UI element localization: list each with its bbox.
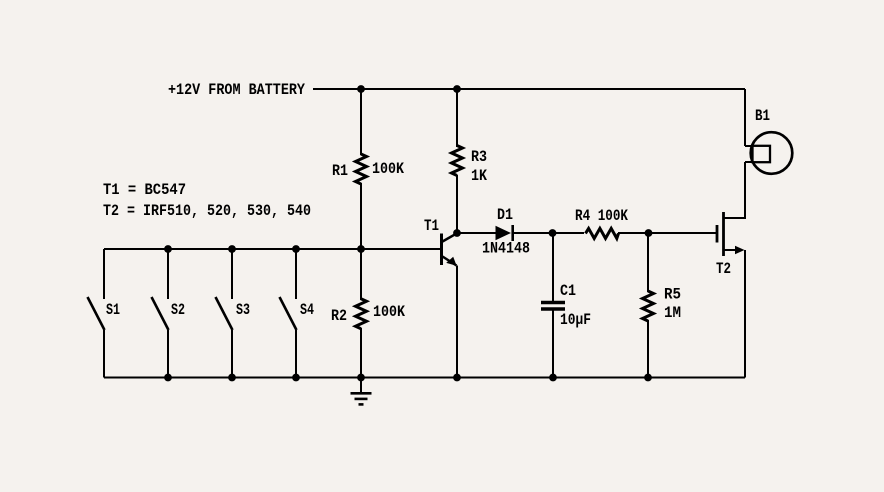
svg-text:S3: S3 — [236, 301, 250, 319]
resistor R2 — [356, 299, 367, 329]
svg-text:T2: T2 — [716, 260, 731, 278]
svg-text:T2 = IRF510, 520, 530, 540: T2 = IRF510, 520, 530, 540 — [103, 202, 311, 220]
node junction top rail R1 — [357, 85, 365, 93]
ground — [351, 378, 372, 405]
node bottom rail C1 — [549, 374, 557, 382]
svg-text:R2: R2 — [331, 307, 347, 325]
wire T1 collector node to D1 anode — [457, 232, 496, 234]
wire R1 lower lead — [360, 183, 362, 249]
node bottom rail S2 — [164, 374, 172, 382]
svg-text:+12V FROM BATTERY: +12V FROM BATTERY — [168, 81, 305, 99]
svg-text:R4 100K: R4 100K — [575, 207, 628, 225]
node base rail S3 — [228, 245, 236, 253]
wire top rail +12V — [313, 88, 745, 90]
wire R3 upper lead — [456, 89, 458, 147]
svg-text:10µF: 10µF — [560, 311, 591, 329]
diode D1 — [496, 225, 513, 241]
switch S2 — [152, 249, 169, 378]
svg-text:T1 = BC547: T1 = BC547 — [103, 181, 186, 199]
transistor T2 (MOSFET) — [717, 212, 745, 256]
wire R3 lower lead to collector node — [456, 175, 458, 233]
transistor T1 — [442, 234, 457, 266]
wire R5 upper lead — [647, 233, 649, 292]
svg-text:S4: S4 — [300, 301, 314, 319]
wire bottom rail — [104, 377, 745, 379]
wire base rail (switches to T1 base) — [104, 248, 440, 250]
svg-text:100K: 100K — [373, 303, 405, 321]
resistor R5 — [643, 291, 654, 321]
wire R4 to T2 gate — [618, 232, 716, 234]
wire T1 emitter to bottom rail — [456, 266, 458, 378]
switch S4 — [280, 249, 297, 378]
node junction top rail R3 — [453, 85, 461, 93]
svg-text:S1: S1 — [106, 301, 120, 319]
svg-text:R5: R5 — [664, 286, 681, 304]
svg-text:R3: R3 — [471, 148, 487, 166]
wire R5 lower lead — [647, 320, 649, 378]
svg-text:1K: 1K — [471, 167, 487, 185]
node bottom rail T1 emitter — [453, 374, 461, 382]
svg-text:1M: 1M — [664, 304, 681, 322]
node bottom rail ground — [357, 374, 365, 382]
node base rail S4 — [292, 245, 300, 253]
node bottom rail S3 — [228, 374, 236, 382]
node base rail R1/R2 divider — [357, 245, 365, 253]
node bottom rail S4 — [292, 374, 300, 382]
resistor R4 — [586, 228, 619, 238]
node C1 top junction — [549, 229, 557, 237]
wire R2 upper lead — [360, 249, 362, 300]
capacitor C1 — [541, 233, 565, 378]
node bottom rail R5 — [644, 374, 652, 382]
svg-text:S2: S2 — [171, 301, 185, 319]
wire B1 to T2 drain — [724, 162, 746, 218]
node T1 collector junction — [453, 229, 461, 237]
svg-text:100K: 100K — [372, 160, 404, 178]
buzzer B1 — [745, 132, 792, 174]
resistor R1 — [356, 154, 367, 184]
svg-text:1N4148: 1N4148 — [482, 240, 530, 258]
wire R1 upper lead — [360, 89, 362, 155]
wire D1 cathode to R4 — [514, 232, 584, 234]
node base rail S2 — [164, 245, 172, 253]
switch S1 — [88, 249, 105, 378]
svg-text:R1: R1 — [332, 162, 348, 180]
switch S3 — [216, 249, 233, 378]
svg-text:C1: C1 — [560, 282, 576, 300]
resistor R3 — [452, 146, 463, 176]
node R5 top junction — [645, 229, 653, 237]
wire B1 drop from top rail — [744, 89, 746, 146]
wire T2 source to bottom rail — [744, 250, 746, 378]
svg-text:D1: D1 — [497, 206, 513, 224]
svg-text:B1: B1 — [755, 107, 770, 125]
svg-text:T1: T1 — [424, 217, 439, 235]
wire R2 lower lead — [360, 328, 362, 378]
